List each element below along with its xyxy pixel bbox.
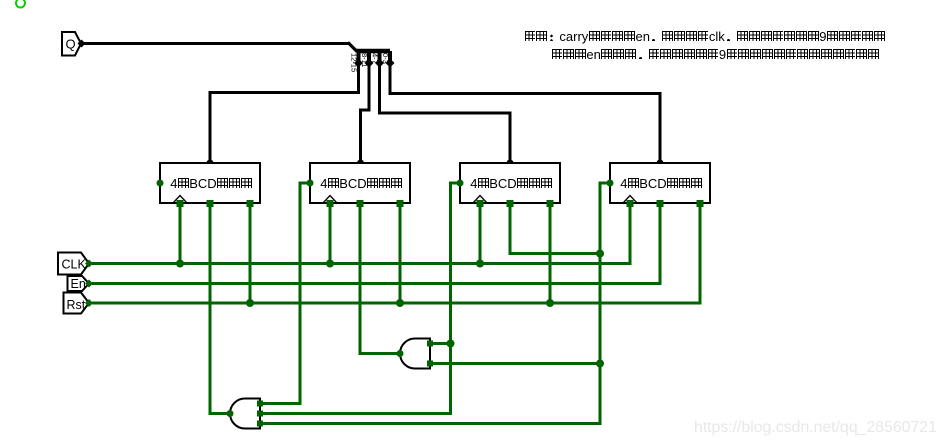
- counter U1 rst pin: [247, 200, 254, 207]
- svg-text:Q: Q: [66, 37, 76, 52]
- splitter SP1 leg 8-11: [367, 51, 371, 64]
- wire U2 en from gate G1 output: [360, 203, 400, 354]
- counter U3 en pin: [507, 200, 514, 207]
- counter U4 rst pin: [697, 200, 704, 207]
- svg-text:Rst: Rst: [67, 298, 86, 312]
- node U2 data input: [357, 160, 364, 167]
- wire CLK bus: [89, 203, 630, 264]
- junction diamond leg 4-7: [375, 59, 384, 68]
- pin Q connection diamond: [78, 40, 86, 48]
- annotation text line 1: [524, 30, 885, 44]
- pin CLK connection diamond: [85, 260, 93, 268]
- counter U1 4-bit BCD counter body: [160, 163, 260, 203]
- counter U4 clock triangle: [623, 196, 637, 204]
- pin En connection diamond: [85, 280, 93, 288]
- node U3 en junction on U4 carry net: [596, 250, 604, 258]
- counter U4 4-bit BCD counter body: [610, 163, 710, 203]
- node U1 rst junction: [246, 299, 254, 307]
- pin Q (16-bit probe pin): [62, 32, 81, 56]
- pin Rst connection diamond: [85, 299, 93, 307]
- gate G2 input pin A: [257, 401, 263, 407]
- wire U3 clk to CLK bus: [479, 203, 482, 264]
- gate G1 output pin: [397, 350, 404, 357]
- node U3 clk junction: [476, 260, 484, 268]
- counter U4 en pin: [657, 200, 664, 207]
- node U4 data input: [657, 160, 664, 167]
- counter U2 4-bit BCD counter body: [310, 163, 410, 203]
- counter U3 clk pin: [477, 200, 484, 207]
- counter U3 carry-out pin: [457, 180, 464, 187]
- counter U3 clock triangle: [473, 196, 487, 204]
- wire En bus: [89, 203, 660, 284]
- node gate G1 input B junction: [596, 360, 604, 368]
- gate G1 input pin B: [427, 361, 433, 367]
- gate G1 input pin A: [427, 341, 433, 347]
- splitter SP1 leg 4-7: [378, 51, 382, 64]
- junction diamond leg 8-11: [365, 59, 374, 68]
- wire gate G1 input B: [430, 362, 600, 365]
- and-gate G1: [400, 339, 430, 369]
- label counter U4: 4-bit BCD counter: [620, 177, 702, 191]
- counter U1 clk pin: [177, 200, 184, 207]
- node U2 rst junction: [396, 299, 404, 307]
- wire splitter 0-3 to U4: [390, 63, 660, 163]
- wire U3 carry-out to gate G1 input A and gate G2 input B: [261, 183, 461, 414]
- counter U2 clk pin: [327, 200, 334, 207]
- wire U2 rst to Rst bus: [399, 203, 402, 303]
- svg-text:CLK: CLK: [62, 258, 87, 272]
- node U3 rst junction: [546, 299, 554, 307]
- node U2 clk junction: [326, 260, 334, 268]
- pin En input: [68, 276, 90, 291]
- gate G2 input pin C: [257, 421, 263, 427]
- wire splitter 4-7 to U3: [380, 63, 511, 163]
- node U1 data input: [207, 160, 214, 167]
- splitter SP1 leg 12-15: [357, 51, 361, 64]
- node U1 clk junction: [176, 260, 184, 268]
- wire U2 carry-out to gate G2 input A: [261, 183, 311, 404]
- counter U1 clock triangle: [173, 196, 187, 204]
- counter U2 carry-out pin: [307, 180, 314, 187]
- svg-text:https://blog.csdn.net/qq_28560: https://blog.csdn.net/qq_28560721: [694, 419, 937, 436]
- node U3 data input: [507, 160, 514, 167]
- counter U1 en pin: [207, 200, 214, 207]
- counter U4 carry-out pin: [607, 180, 614, 187]
- counter U3 4-bit BCD counter body: [460, 163, 560, 203]
- wire U3 en from carry net: [510, 203, 600, 254]
- wire U4 carry-out to gate G1 input B and gate G2 input C: [261, 183, 611, 424]
- gate G2 input pin B: [257, 411, 263, 417]
- and-gate G2: [230, 399, 260, 429]
- label counter U1: 4-bit BCD counter: [170, 177, 252, 191]
- svg-text:En: En: [71, 277, 86, 291]
- junction diamond leg 0-3: [386, 59, 395, 68]
- counter U2 rst pin: [397, 200, 404, 207]
- wire gate G1 input A: [430, 342, 451, 345]
- wire U1 rst to Rst bus: [249, 203, 252, 303]
- counter U3 rst pin: [547, 200, 554, 207]
- wire U3 rst to Rst bus: [549, 203, 552, 303]
- wire Rst bus: [89, 203, 700, 303]
- gate G2 output pin: [227, 410, 234, 417]
- pin Rst input: [64, 293, 90, 314]
- pin CLK input: [58, 253, 89, 275]
- counter U1 carry-out pin: [157, 180, 164, 187]
- wire U1 en from gate G2 output: [210, 203, 230, 414]
- node gate G1 input A junction: [447, 340, 455, 348]
- node indicator (green circle, top-left): [16, 0, 25, 8]
- counter U4 clk pin: [627, 200, 634, 207]
- counter U2 en pin: [357, 200, 364, 207]
- splitter SP1 leg 0-3: [388, 51, 392, 64]
- wire Q to splitter: [82, 42, 350, 45]
- wire splitter 12-15 to U1: [210, 63, 359, 163]
- counter U2 clock triangle: [323, 196, 337, 204]
- wire U1 clk to CLK bus: [179, 203, 182, 264]
- wire splitter 8-11 to U2: [361, 63, 370, 163]
- splitter SP1 bar: [357, 49, 391, 54]
- junction diamond leg 12-15: [354, 59, 363, 68]
- label counter U3: 4-bit BCD counter: [470, 177, 552, 191]
- label counter U2: 4-bit BCD counter: [320, 177, 402, 191]
- wire U2 clk to CLK bus: [329, 203, 332, 264]
- annotation text line 2: [551, 48, 879, 62]
